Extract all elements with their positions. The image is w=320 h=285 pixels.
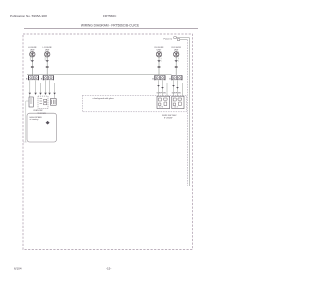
wires switch left drops (30, 80, 55, 98)
svg-text:UNIT: UNIT (30, 49, 35, 51)
connector on LR stem (46, 60, 49, 62)
title rule (24, 28, 198, 30)
wire power to bus (176, 38, 189, 40)
power terminal box N (177, 39, 180, 41)
svg-text:SURF SW: SURF SW (157, 92, 166, 94)
svg-text:8" 2350W: 8" 2350W (164, 117, 172, 119)
power terminal box L1 (174, 37, 177, 39)
surface unit LF (30, 52, 35, 57)
svg-text:UNIT: UNIT (45, 49, 50, 51)
wires switch RF drops (159, 80, 183, 96)
right bus line dashed (186, 40, 188, 186)
diamond connector (46, 121, 50, 125)
connectors on RF drops (157, 85, 179, 89)
wire frame-left vertical (25, 101, 27, 142)
wire switch top feed (27, 74, 172, 76)
dashed stub to frame (23, 141, 27, 143)
svg-text:-15-: -15- (106, 267, 111, 271)
svg-text:at century: at century (30, 118, 39, 121)
connector on LF stem (31, 60, 34, 62)
right bus line solid (188, 38, 190, 186)
relay rounded box (27, 113, 57, 142)
svg-text:UNIT: UNIT (174, 49, 179, 51)
wire LF stem (31, 57, 33, 75)
wire LR stem (46, 57, 48, 75)
svg-text:a backguard with glass: a backguard with glass (93, 97, 114, 100)
surface unit LR (45, 52, 50, 57)
TOD box (50, 99, 56, 106)
svg-text:1 2 3: 1 2 3 (159, 107, 163, 109)
svg-text:WIRING DIAGRAM - FRT566C/B-C: WIRING DIAGRAM - FRT566C/B-CU/CE (81, 24, 139, 28)
surface switch box RF (157, 96, 170, 108)
surface unit RF (156, 52, 161, 57)
wire RF stem (158, 57, 160, 75)
thermostat dashed box (38, 96, 48, 108)
surface unit RR (174, 52, 179, 57)
surface switch box RR (172, 96, 184, 108)
oven selector switch box (29, 97, 33, 107)
svg-text:UNIT: UNIT (157, 49, 162, 51)
wire RR stem (175, 57, 177, 75)
connector on RF stem (157, 60, 160, 62)
svg-text:1 2 3: 1 2 3 (174, 107, 178, 109)
svg-text:OVEN SW: OVEN SW (33, 110, 43, 112)
console dashed box (82, 95, 186, 111)
connectors on left drops (29, 93, 56, 95)
svg-text:SURF SW: SURF SW (172, 92, 181, 94)
svg-text:FRT566C: FRT566C (103, 14, 117, 18)
diagram frame (23, 34, 193, 250)
svg-text:6/104: 6/104 (14, 267, 22, 271)
svg-text:Power to: Power to (164, 38, 173, 41)
connector on RR stem (175, 60, 178, 62)
svg-text:Publication No. 5995A-908: Publication No. 5995A-908 (10, 14, 47, 18)
